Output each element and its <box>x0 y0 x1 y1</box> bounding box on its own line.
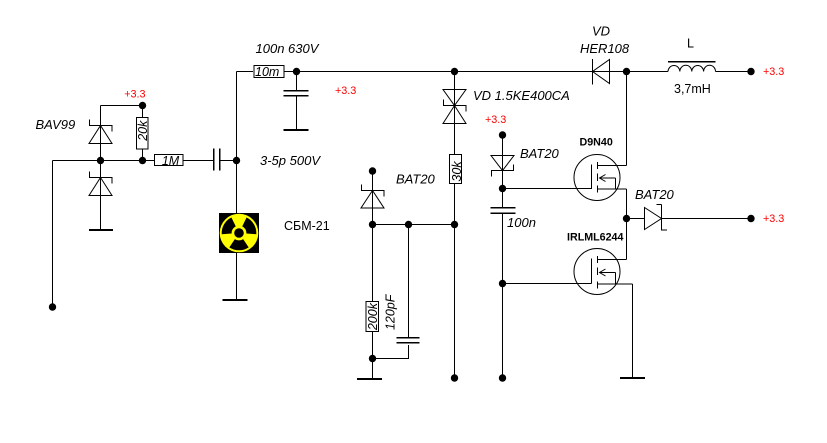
wire left drop <box>52 161 54 304</box>
svg-text:+3.3: +3.3 <box>335 85 356 97</box>
wire output2 after diode <box>662 218 752 220</box>
wire 200k top rail <box>372 225 374 302</box>
transistor Q2 IRLML6244 (N-MOSFET) <box>574 249 633 295</box>
svg-text:BAT20: BAT20 <box>396 172 436 187</box>
wire top bus after inductor <box>716 71 752 73</box>
node 30k rail bottom terminal <box>451 374 458 381</box>
wire lower bus segment 3 <box>220 160 237 162</box>
node 120pF top junction <box>405 221 412 228</box>
diode BAT20 (middle, near 200k) <box>361 185 385 209</box>
svg-text:3-5p 500V: 3-5p 500V <box>260 153 321 168</box>
wire gate IRLML6244 <box>503 283 592 285</box>
svg-text:+3.3: +3.3 <box>485 114 506 126</box>
node left drop terminal <box>49 303 56 310</box>
ground bar under 200k <box>357 378 382 380</box>
svg-text:100n: 100n <box>507 215 536 230</box>
capacitor 3-5p 500V plates <box>214 149 220 171</box>
svg-text:HER108: HER108 <box>580 41 630 56</box>
ground bar under IRLML6244 <box>620 377 645 379</box>
resistor 10m <box>254 66 284 78</box>
svg-text:+3.3: +3.3 <box>763 213 784 225</box>
svg-text:BAT20: BAT20 <box>520 146 560 161</box>
svg-text:+3.3: +3.3 <box>763 66 784 78</box>
wire TVS rail upper <box>454 72 456 155</box>
wire source rail IRLML6244 <box>632 284 634 377</box>
node gate rail bottom terminal <box>499 374 506 381</box>
svg-text:VD: VD <box>592 24 610 39</box>
inductor L 3,7mH <box>668 62 716 72</box>
wire 120pF top rail <box>408 225 410 339</box>
wire output2 to diode <box>627 218 645 220</box>
resistor 1M <box>155 155 184 166</box>
wire left rail x236 below tube <box>236 253 238 299</box>
svg-text:D9N40: D9N40 <box>580 137 613 149</box>
svg-text:VD 1.5KE400CA: VD 1.5KE400CA <box>473 88 570 103</box>
svg-text:10m: 10m <box>255 65 279 79</box>
node cap/rail junction <box>233 157 240 164</box>
wire 502 rail upper <box>502 135 504 208</box>
svg-text:200k: 200k <box>366 302 380 331</box>
wire top bus left stub <box>237 71 254 73</box>
wire 30k rail lower <box>454 184 456 375</box>
capacitor 120pF plates <box>397 338 420 343</box>
svg-text:L: L <box>687 37 694 51</box>
wire 20k top stub <box>142 106 144 118</box>
node bus/TVS junction <box>451 68 458 75</box>
wire 502 rail lower <box>502 214 504 375</box>
svg-text:20k: 20k <box>136 120 150 142</box>
node BAT20 supply terminal <box>499 131 506 138</box>
wire mid BAT20 rail <box>372 171 374 225</box>
Geiger tube СБМ-21 <box>219 213 259 253</box>
svg-text:BAV99: BAV99 <box>36 117 76 132</box>
wire BAV99 top link <box>101 105 143 107</box>
resistor 30k <box>450 155 462 184</box>
node 200k/120pF bottom junction <box>369 355 376 362</box>
ground bar under tube <box>223 299 248 301</box>
wire drain rail IRLML6244 <box>626 219 628 260</box>
wire BAV99 top vertical <box>100 106 102 161</box>
wire 100n 630V bottom stub <box>296 97 298 130</box>
node gate rail D9N40 <box>499 185 506 192</box>
node 30k bottom junction <box>451 221 458 228</box>
wire gate D9N40 <box>503 188 592 190</box>
node 20k supply terminal <box>139 102 146 109</box>
node mid BAT20 top terminal <box>369 167 376 174</box>
wire 20k bottom stub <box>142 149 144 161</box>
capacitor 100n gate plates <box>491 208 516 214</box>
node 20k/bus junction <box>139 157 146 164</box>
wire 200k bottom rail <box>372 332 374 379</box>
wire lower bus segment 2 <box>183 160 213 162</box>
node output2 terminal <box>747 215 754 222</box>
svg-text:120pF: 120pF <box>384 293 398 330</box>
TVS diode VD 1.5KE400CA <box>443 90 467 124</box>
svg-text:BAT20: BAT20 <box>635 187 675 202</box>
wire BAV99 bottom vertical <box>100 161 102 230</box>
svg-text:+3.3: +3.3 <box>124 89 145 101</box>
svg-text:3,7mH: 3,7mH <box>674 82 711 96</box>
node A bus/10m junction <box>293 68 300 75</box>
diode BAV99 D2 (lower) <box>89 172 113 196</box>
ground bar under 100n 630V <box>284 129 309 131</box>
svg-text:100n 630V: 100n 630V <box>256 41 320 56</box>
node gate rail IRLML6244 <box>499 280 506 287</box>
svg-text:IRLML6244: IRLML6244 <box>567 232 623 244</box>
wire 120pF bottom stub <box>373 345 409 359</box>
wire y224 horizontal <box>373 224 455 226</box>
wire top bus main <box>284 71 668 73</box>
wire left rail x236 upper <box>236 72 238 214</box>
node source D9N40 output <box>623 215 630 222</box>
wire lower bus segment 1 <box>53 160 155 162</box>
ground bar under BAV99 <box>89 229 113 231</box>
wire source D9N40 to node <box>626 189 628 219</box>
wire 100n 630V top stub <box>296 72 298 91</box>
diode BAT20 (output, pointing right) <box>645 205 668 231</box>
resistor 200k <box>366 302 379 332</box>
node output1 terminal <box>747 68 754 75</box>
resistor 20k <box>137 118 149 150</box>
svg-text:СБМ-21: СБМ-21 <box>284 219 330 233</box>
node bus/drain junction <box>623 68 630 75</box>
node BAV99 junction <box>97 157 104 164</box>
diode VD HER108 <box>593 59 610 85</box>
node mid BAT20 bottom <box>369 221 376 228</box>
svg-text:1M: 1M <box>162 154 180 168</box>
diode BAT20 (gate rail, anode up) <box>491 156 514 177</box>
diode BAV99 D1 (upper) <box>89 120 113 144</box>
wire drain rail D9N40 <box>626 72 628 166</box>
capacitor 100n 630V plates <box>284 91 309 96</box>
svg-text:30k: 30k <box>450 161 464 182</box>
transistor Q1 D9N40 (N-MOSFET) <box>574 155 627 201</box>
